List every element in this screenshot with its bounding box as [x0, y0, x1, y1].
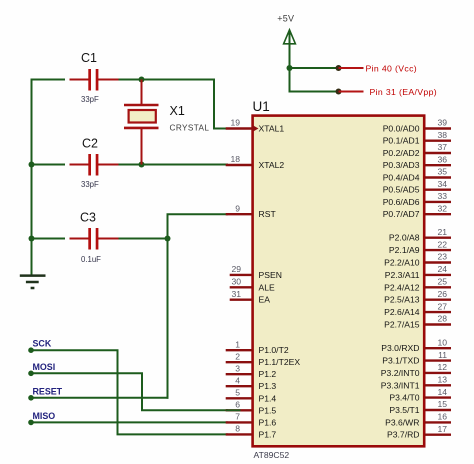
svg-text:C3: C3	[80, 211, 96, 225]
node: junction C1/crystal top	[139, 77, 145, 83]
pin 6 P1.5 stub	[226, 409, 252, 411]
svg-text:28: 28	[437, 314, 447, 324]
power +5V symbol arrow	[284, 30, 296, 44]
pin 22 P2.1 stub	[425, 249, 451, 251]
label line Pin 31	[339, 91, 364, 93]
pin 30 ALE stub	[230, 286, 252, 288]
svg-text:25: 25	[437, 277, 447, 287]
pins right side of U1: stubs	[425, 129, 451, 435]
pin 8 P1.7 stub	[226, 433, 252, 435]
svg-text:18: 18	[230, 154, 240, 164]
wire: +5V branch to Pin 31 terminal	[290, 91, 339, 93]
svg-text:C2: C2	[82, 137, 98, 151]
svg-text:23: 23	[437, 252, 447, 262]
pin 5 P1.4 stub	[226, 397, 252, 399]
svg-text:33: 33	[437, 191, 447, 201]
svg-text:RST: RST	[259, 209, 277, 219]
svg-text:XTAL1: XTAL1	[259, 124, 285, 134]
wire: C3 row left segment (rail to C3)	[32, 238, 65, 240]
pin 33 P0.6 stub	[425, 201, 451, 203]
pin 37 P0.2 stub	[425, 152, 451, 154]
svg-text:P0.6/AD6: P0.6/AD6	[383, 197, 420, 207]
svg-text:P1.6: P1.6	[259, 417, 277, 427]
svg-text:P0.3/AD3: P0.3/AD3	[383, 160, 420, 170]
pin 3 P1.2 stub	[226, 373, 252, 375]
svg-text:P1.7: P1.7	[259, 429, 277, 439]
svg-text:17: 17	[437, 424, 447, 434]
pin names left column	[259, 124, 301, 440]
svg-text:34: 34	[437, 179, 447, 189]
pin 18 XTAL2 stub	[226, 164, 252, 166]
pin names right column	[381, 124, 420, 440]
svg-text:P3.7/RD: P3.7/RD	[387, 430, 419, 440]
svg-text:2: 2	[235, 351, 240, 361]
svg-text:ALE: ALE	[259, 282, 276, 292]
svg-text:24: 24	[437, 264, 447, 274]
svg-text:P0.2/AD2: P0.2/AD2	[383, 148, 420, 158]
pin 17 P3.7 stub	[425, 434, 451, 436]
op: net label SCK	[28, 347, 34, 353]
svg-text:8: 8	[235, 424, 240, 434]
pin 14 P3.4 stub	[425, 396, 451, 398]
svg-text:15: 15	[437, 399, 447, 409]
pin 32 P0.7 stub	[425, 213, 451, 215]
svg-text:P0.4/AD4: P0.4/AD4	[383, 173, 420, 183]
svg-text:SCK: SCK	[33, 339, 52, 349]
svg-text:14: 14	[437, 387, 447, 397]
svg-text:13: 13	[437, 375, 447, 385]
pin 38 P0.1 stub	[425, 139, 451, 141]
svg-text:22: 22	[437, 239, 447, 249]
svg-text:P3.2/INT0: P3.2/INT0	[381, 368, 420, 378]
svg-text:37: 37	[437, 142, 447, 152]
crystal X1	[124, 80, 159, 165]
svg-text:6: 6	[235, 400, 240, 410]
svg-text:RESET: RESET	[33, 387, 63, 397]
pin 7 P1.6 stub	[226, 421, 252, 423]
svg-text:36: 36	[437, 154, 447, 164]
svg-text:10: 10	[437, 337, 447, 347]
wire: RST net vertical and to RST pin	[168, 214, 228, 398]
capacitor C2	[70, 154, 119, 176]
net label MOSI	[28, 371, 34, 377]
wire: MISO label to P1.6	[31, 421, 227, 423]
pin 23 P2.2 stub	[425, 261, 451, 263]
wire: MOSI label to P1.5	[31, 373, 227, 410]
pin 39 P0.0 stub	[425, 127, 451, 129]
svg-text:P2.0/A8: P2.0/A8	[389, 233, 420, 243]
wire: C2 row left segment (rail to C2)	[32, 164, 65, 166]
label line Pin 40	[339, 67, 364, 69]
svg-text:35: 35	[437, 167, 447, 177]
svg-text:32: 32	[437, 203, 447, 213]
node: junction C2/crystal bottom	[139, 162, 145, 168]
pin 35 P0.4 stub	[425, 176, 451, 178]
svg-text:P1.5: P1.5	[259, 405, 277, 415]
node: junction C3/RST net	[165, 236, 171, 242]
svg-text:12: 12	[437, 362, 447, 372]
svg-text:MISO: MISO	[33, 411, 56, 421]
svg-text:PSEN: PSEN	[259, 270, 282, 280]
pin 15 P3.5 stub	[425, 409, 451, 411]
svg-text:P2.2/A10: P2.2/A10	[384, 258, 420, 268]
svg-text:P0.5/AD5: P0.5/AD5	[383, 185, 420, 195]
wire: C3 row right segment to node	[118, 238, 168, 240]
svg-text:P2.4/A12: P2.4/A12	[384, 282, 420, 292]
pin 29 PSEN stub	[230, 274, 252, 276]
ground	[20, 276, 46, 288]
wire: left vertical rail from C1 row down to ground	[31, 80, 33, 275]
svg-text:3: 3	[235, 363, 240, 373]
svg-text:P1.2: P1.2	[259, 369, 277, 379]
pin 12 P3.2 stub	[425, 372, 451, 374]
svg-text:AT89C52: AT89C52	[254, 450, 290, 460]
svg-text:P2.3/A11: P2.3/A11	[385, 270, 420, 280]
pin 1 P1.0 stub	[226, 349, 252, 351]
pin 36 P0.3 stub	[425, 164, 451, 166]
svg-text:X1: X1	[170, 104, 185, 118]
svg-text:21: 21	[437, 227, 447, 237]
svg-text:P2.1/A9: P2.1/A9	[389, 245, 420, 255]
node: junction rail/C3	[29, 236, 35, 242]
pin 13 P3.3 stub	[425, 384, 451, 386]
terminal dot Pin 31	[336, 89, 342, 95]
svg-text:0.1uF: 0.1uF	[81, 255, 101, 264]
svg-text:11: 11	[438, 350, 447, 360]
pin 24 P2.3 stub	[425, 274, 451, 276]
svg-text:P0.7/AD7: P0.7/AD7	[383, 209, 420, 219]
pins left side of U1: stubs	[226, 129, 252, 435]
svg-text:P3.6/WR: P3.6/WR	[385, 417, 419, 427]
pin 21 P2.0 stub	[425, 236, 451, 238]
svg-text:P3.5/T1: P3.5/T1	[389, 405, 419, 415]
svg-text:30: 30	[231, 277, 241, 287]
svg-text:Pin 40 (Vcc): Pin 40 (Vcc)	[366, 63, 418, 73]
pin 19 XTAL1 stub	[226, 127, 252, 129]
capacitor C3	[70, 228, 119, 250]
pin 31 EA stub	[230, 299, 252, 301]
svg-text:P1.1/T2EX: P1.1/T2EX	[259, 357, 301, 367]
pin 16 P3.6 stub	[425, 421, 451, 423]
wire: C1 row left segment (rail to C1)	[32, 79, 65, 81]
pin 4 P1.3 stub	[226, 385, 252, 387]
svg-text:19: 19	[230, 118, 240, 128]
capacitor C1	[70, 69, 119, 91]
wire: RESET label to RST net	[31, 397, 168, 399]
op-amp U1 chip body AT89C52	[253, 116, 425, 447]
pin numbers right column	[437, 118, 447, 434]
node: junction +5V/Pin40 branch	[287, 65, 293, 71]
pin 28 P2.7 stub	[425, 323, 451, 325]
wire: C1 row right segment to XTAL1 corner	[118, 80, 227, 129]
svg-text:U1: U1	[253, 99, 270, 114]
svg-text:29: 29	[231, 264, 241, 274]
pin 11 P3.1 stub	[425, 359, 451, 361]
wire: C2 row right segment to XTAL2 pin	[118, 164, 227, 166]
svg-text:38: 38	[437, 130, 447, 140]
svg-text:P3.1/TXD: P3.1/TXD	[382, 356, 419, 366]
svg-text:Pin 31 (EA/Vpp): Pin 31 (EA/Vpp)	[370, 87, 438, 97]
svg-text:P3.3/INT1: P3.3/INT1	[381, 380, 420, 390]
pin 34 P0.5 stub	[425, 188, 451, 190]
svg-text:P2.7/A15: P2.7/A15	[384, 320, 420, 330]
node: junction rail/C2	[29, 162, 35, 168]
net label MISO	[28, 420, 34, 426]
svg-text:33pF: 33pF	[81, 95, 99, 104]
svg-text:P3.4/T0: P3.4/T0	[389, 393, 419, 403]
svg-text:39: 39	[437, 118, 447, 128]
svg-text:+5V: +5V	[277, 14, 294, 24]
svg-text:CRYSTAL: CRYSTAL	[170, 124, 210, 133]
pin XTAL1 input arrow	[253, 125, 259, 131]
wire overlay: MOSI wire over P1.5 stub	[226, 409, 241, 411]
svg-text:7: 7	[235, 412, 240, 422]
svg-text:C1: C1	[81, 51, 97, 65]
svg-text:P1.0/T2: P1.0/T2	[259, 345, 289, 355]
wire: +5V branch to Pin 40 terminal	[290, 67, 339, 69]
svg-text:27: 27	[437, 301, 447, 311]
wire: +5V stem lower part	[289, 44, 291, 92]
net label RESET	[28, 395, 34, 401]
svg-text:EA: EA	[259, 295, 271, 305]
pin 10 P3.0 stub	[425, 347, 451, 349]
svg-text:P2.6/A14: P2.6/A14	[384, 307, 420, 317]
pin 2 P1.1 stub	[226, 361, 252, 363]
pin 26 P2.5 stub	[425, 299, 451, 301]
svg-text:P0.1/AD1: P0.1/AD1	[383, 136, 420, 146]
svg-text:XTAL2: XTAL2	[259, 160, 285, 170]
svg-text:1: 1	[235, 339, 240, 349]
pin 27 P2.6 stub	[425, 311, 451, 313]
svg-text:4: 4	[235, 375, 240, 385]
svg-text:MOSI: MOSI	[33, 362, 56, 372]
terminal dot Pin 40	[336, 65, 342, 71]
svg-text:16: 16	[437, 412, 447, 422]
svg-text:26: 26	[437, 289, 447, 299]
svg-text:P1.3: P1.3	[259, 381, 277, 391]
pin 25 P2.4 stub	[425, 286, 451, 288]
svg-text:P0.0/AD0: P0.0/AD0	[383, 124, 420, 134]
svg-text:P3.0/RXD: P3.0/RXD	[381, 343, 419, 353]
svg-text:P2.5/A13: P2.5/A13	[384, 295, 420, 305]
svg-text:5: 5	[235, 388, 240, 398]
svg-text:9: 9	[235, 203, 240, 213]
wire: SCK label to P1.7	[31, 350, 227, 434]
pin numbers left column	[230, 118, 241, 434]
svg-text:33pF: 33pF	[81, 180, 99, 189]
pin 9 RST stub	[226, 213, 252, 215]
svg-text:P1.4: P1.4	[259, 393, 277, 403]
svg-text:31: 31	[231, 289, 241, 299]
